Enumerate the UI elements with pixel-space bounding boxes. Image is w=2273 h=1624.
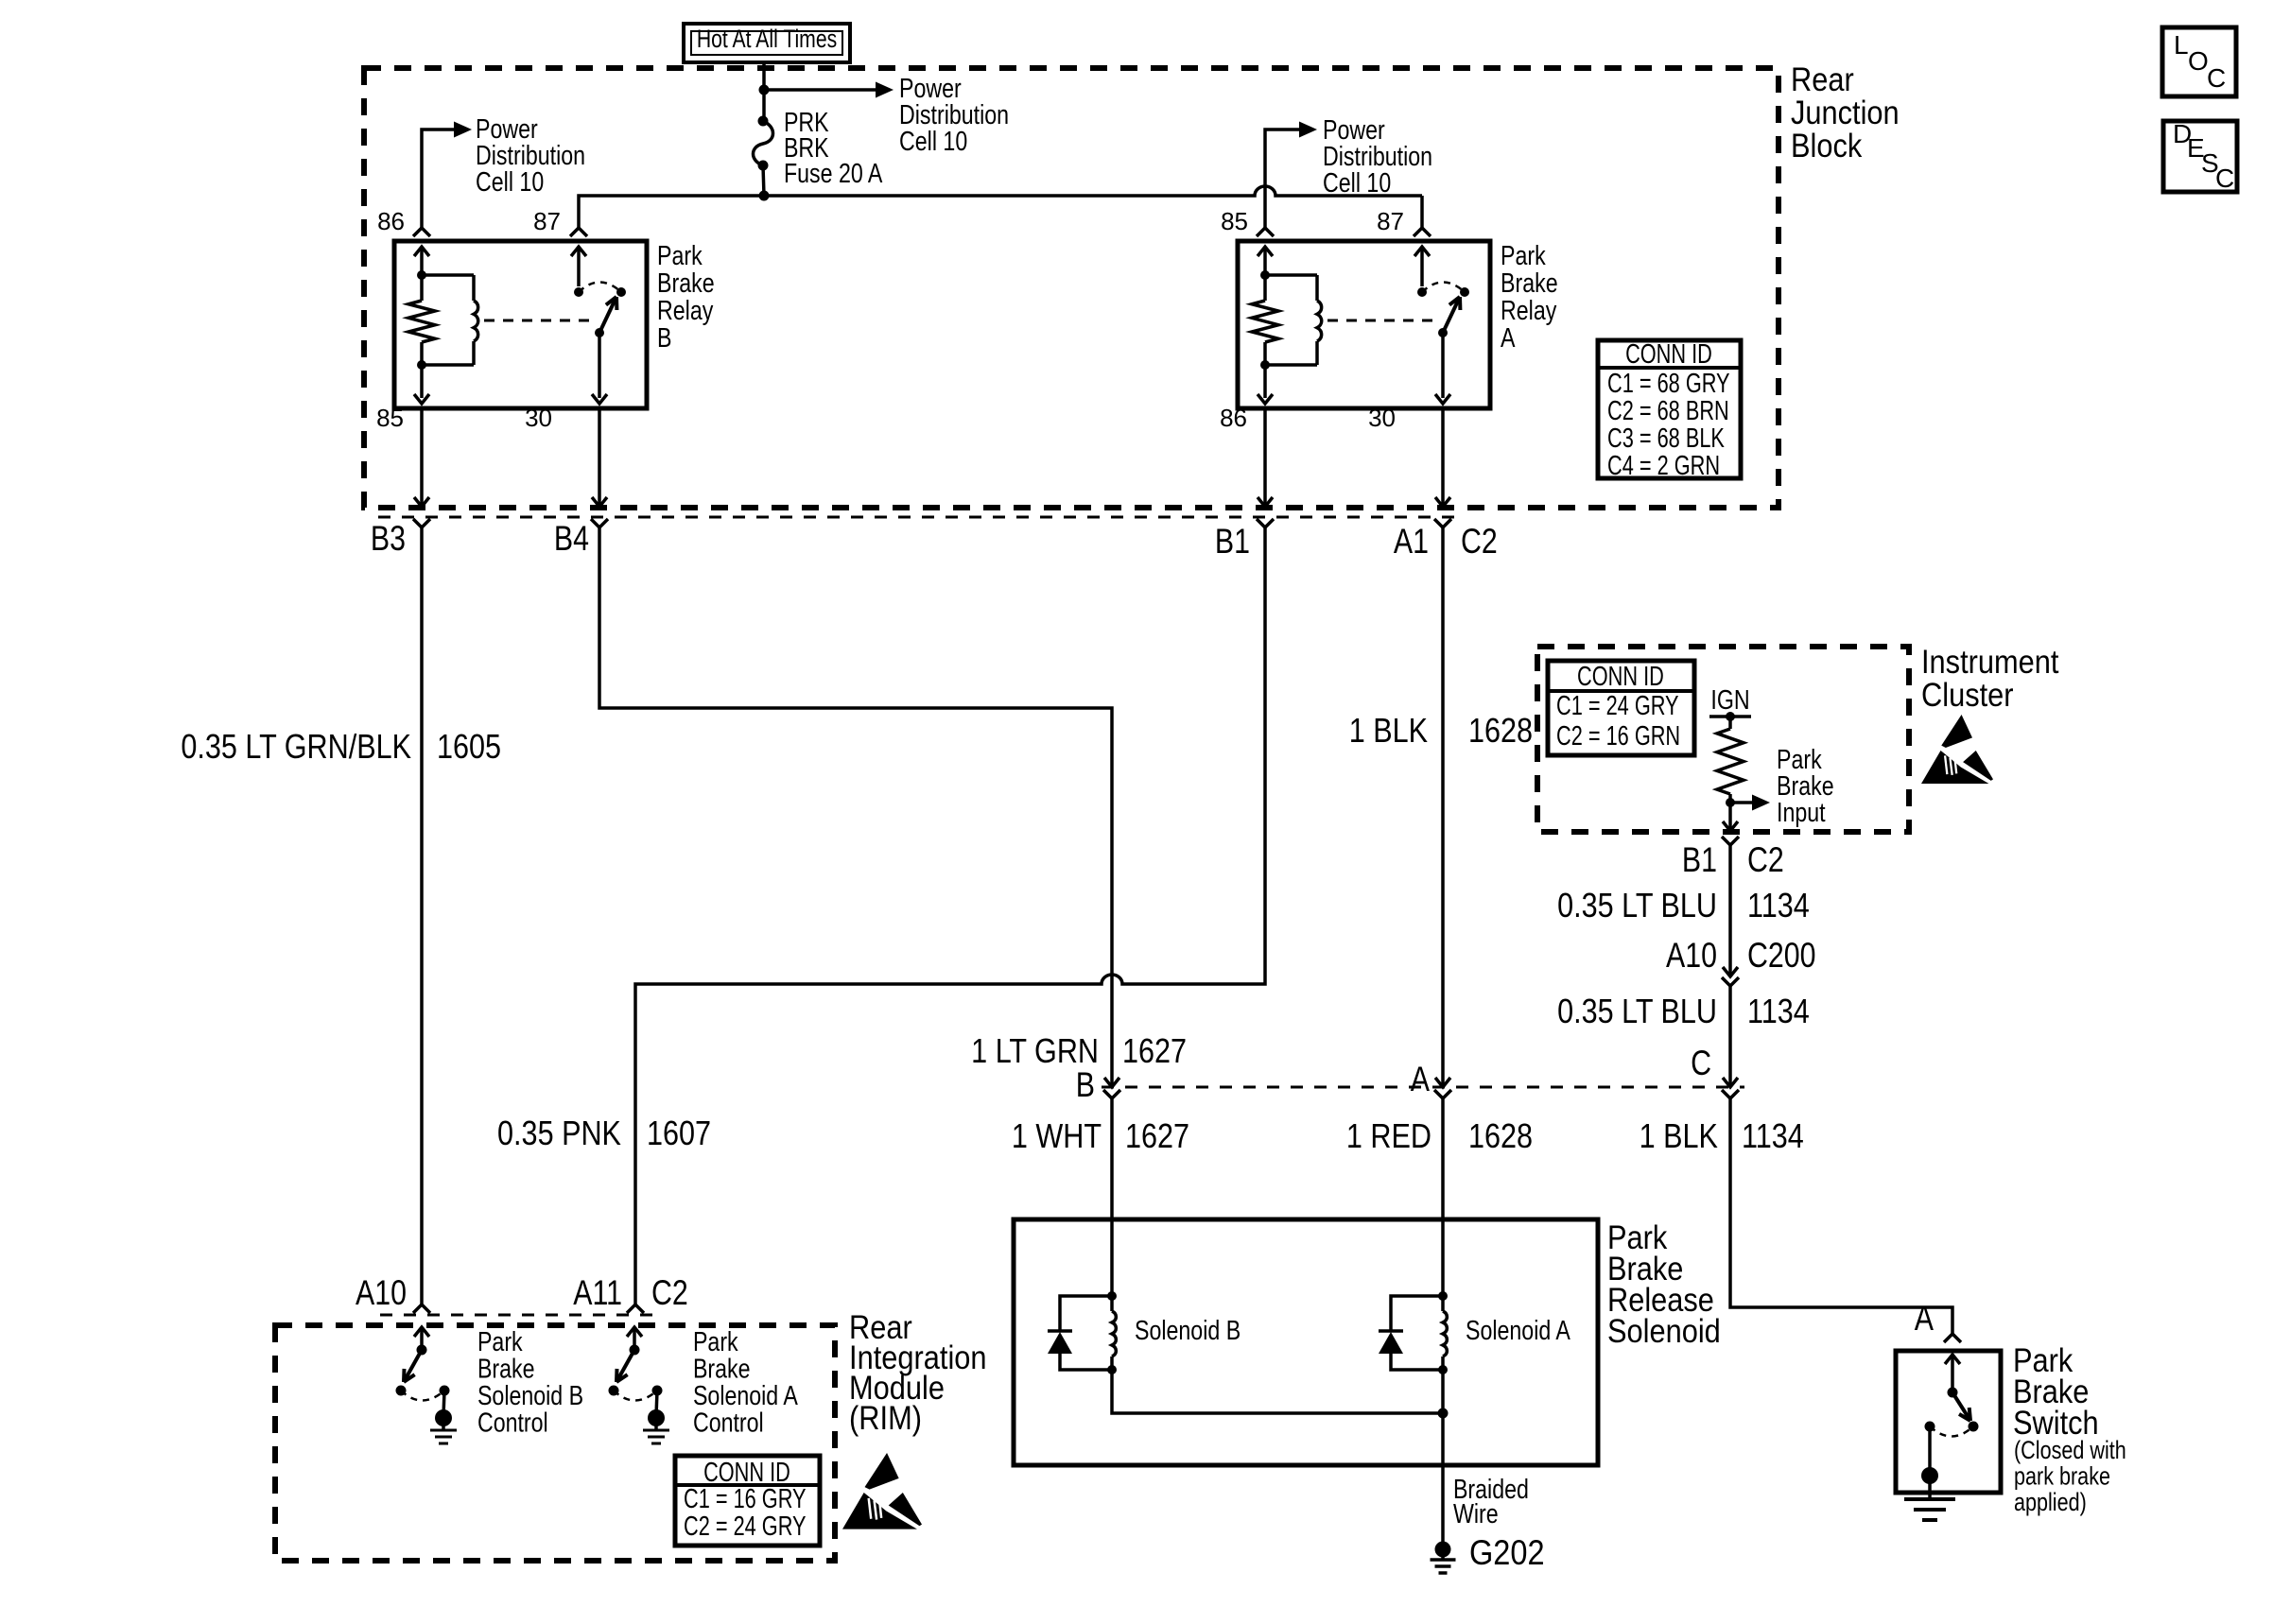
RIM Park Brake Solenoid A Control switch ground contact [652, 1386, 663, 1396]
relay B pin 87 connector chevron [570, 228, 587, 236]
svg-text:Input: Input [1777, 796, 1826, 827]
connector A11 chevron [627, 1304, 644, 1313]
junction block connector dashed line [378, 516, 1461, 519]
svg-text:C: C [2215, 164, 2234, 193]
relay B coil [422, 273, 474, 277]
diode across solenoid A [1391, 1296, 1443, 1331]
svg-text:1134: 1134 [1747, 993, 1810, 1031]
relay B pin 86 wire to Power Distribution arrow [422, 130, 454, 228]
solenoid A bottom node [1438, 1365, 1448, 1374]
svg-text:86: 86 [1220, 404, 1247, 432]
cluster connector chevron B1/C2 [1722, 837, 1739, 845]
wire 1607 (B1 to RIM A11) with hop over wire 1627 [635, 527, 1265, 1304]
fuse PRK BRK Fuse 20 A [762, 90, 766, 121]
relay A switch rest-position dashed arc [1422, 283, 1465, 293]
relay B switch rest-position dashed arc [579, 283, 621, 293]
relay A pin 87 connector chevron [1414, 228, 1431, 236]
solenoid B bottom node [1107, 1365, 1117, 1374]
arrow to Park Brake Input [1730, 801, 1752, 804]
svg-text:Cell 10: Cell 10 [476, 165, 544, 197]
relay A wire pin 86 to junction block edge [1263, 408, 1267, 508]
svg-text:park brake: park brake [2014, 1462, 2110, 1491]
svg-text:CONN ID: CONN ID [1625, 339, 1712, 370]
svg-text:Control: Control [477, 1407, 548, 1438]
wire 1628 (A1 to solenoid connector A) [1441, 527, 1445, 1087]
junction node at top of fuse feed [759, 85, 770, 95]
svg-text:Wire: Wire [1453, 1497, 1499, 1529]
connector B4 chevron [591, 519, 608, 527]
svg-text:Fuse 20 A: Fuse 20 A [784, 157, 883, 188]
svg-text:A: A [1915, 1299, 1935, 1339]
svg-text:0.35 LT BLU: 0.35 LT BLU [1557, 888, 1717, 925]
wire 1134 cluster to C200 [1728, 845, 1732, 976]
svg-text:B3: B3 [371, 519, 406, 559]
svg-text:86: 86 [377, 207, 405, 235]
relay B coil bottom node [417, 360, 426, 370]
svg-text:C2 = 16 GRN: C2 = 16 GRN [1556, 721, 1680, 752]
connector C200 chevron [1722, 977, 1739, 986]
svg-text:(RIM): (RIM) [849, 1399, 922, 1436]
RIM Park Brake Solenoid B Control switch arm [404, 1350, 422, 1382]
switch closed-position dashed arc [1930, 1426, 1973, 1437]
svg-text:1607: 1607 [647, 1115, 711, 1153]
svg-text:Switch: Switch [2013, 1404, 2099, 1441]
switch arm [1952, 1392, 1970, 1421]
relay B switch feed arrow from pin 87 [577, 248, 581, 286]
connector A10 chevron [413, 1304, 430, 1313]
svg-text:0.35 LT BLU: 0.35 LT BLU [1557, 993, 1717, 1031]
CONN ID table for Rear Junction Block [1598, 340, 1741, 478]
svg-text:1134: 1134 [1742, 1118, 1804, 1156]
solenoid A feed wire [1441, 1221, 1445, 1296]
solenoid B top node [1107, 1291, 1117, 1301]
svg-text:Block: Block [1791, 127, 1863, 164]
svg-text:1627: 1627 [1125, 1118, 1189, 1156]
RIM Park Brake Solenoid A Control switch closed-position dashed arc [614, 1391, 657, 1401]
LOC reference box [2162, 27, 2236, 96]
braided ground wire to G202 [1441, 1370, 1445, 1542]
svg-text:Solenoid B: Solenoid B [1135, 1314, 1241, 1345]
relay A coil exit arrow to pin 86 [1263, 365, 1267, 398]
wire connector A to Solenoid A [1441, 1098, 1445, 1221]
fused feed wire node [759, 191, 770, 201]
CONN ID table for RIM [675, 1456, 820, 1546]
svg-text:1 WHT: 1 WHT [1012, 1118, 1102, 1156]
relay B pin 86 connector chevron [413, 228, 430, 236]
park brake switch ground [1921, 1467, 1938, 1484]
svg-text:B4: B4 [554, 519, 589, 559]
power feed label box: Hot At All Times [684, 24, 850, 62]
svg-text:C1 = 68 GRY: C1 = 68 GRY [1607, 369, 1730, 399]
relay A coil [1265, 273, 1317, 277]
svg-text:1 RED: 1 RED [1346, 1118, 1431, 1156]
svg-text:B1: B1 [1682, 840, 1717, 880]
park brake input tap node [1726, 798, 1735, 807]
relay B wire pin 85 to junction block edge [420, 408, 424, 508]
relay A switch fixed contact [1460, 287, 1469, 297]
wire connector C to Park Brake Switch A [1730, 1098, 1952, 1334]
connector B3 chevron [413, 519, 430, 527]
feed wire right segment with hop over relay A pin 85 wire [764, 186, 1422, 196]
diode across solenoid B [1060, 1296, 1112, 1331]
svg-text:C: C [1691, 1044, 1711, 1083]
RIM Park Brake Solenoid B Control switch open contact [396, 1386, 407, 1396]
relay B box [394, 241, 647, 408]
svg-text:85: 85 [1221, 207, 1248, 235]
ESD sensitive symbol (RIM) [842, 1453, 922, 1529]
ground G202 [1435, 1542, 1451, 1558]
switch open contact [1969, 1422, 1979, 1432]
svg-text:A10: A10 [356, 1273, 407, 1313]
RIM Park Brake Solenoid A Control driver entry arrow [633, 1328, 636, 1345]
relay A switch movable arm [1443, 297, 1460, 333]
svg-text:O: O [2188, 46, 2209, 76]
svg-text:Solenoid A: Solenoid A [1466, 1314, 1570, 1345]
Instrument Cluster dashed enclosure [1537, 647, 1909, 832]
relay B switch contact (pin 87 side) [574, 287, 583, 297]
svg-text:C2 = 24 GRY: C2 = 24 GRY [684, 1512, 807, 1542]
chevron below connector B [1103, 1090, 1120, 1098]
relay A kickback resistor [1252, 301, 1278, 342]
relay A coil top node [1260, 270, 1270, 280]
svg-text:0.35 LT GRN/BLK: 0.35 LT GRN/BLK [181, 729, 411, 767]
relay A switch contact (pin 87 side) [1417, 287, 1427, 297]
solenoid A top node [1438, 1291, 1448, 1301]
relay B wire pin 30 to junction block edge [598, 408, 601, 508]
svg-text:Control: Control [693, 1407, 764, 1438]
svg-text:C200: C200 [1747, 936, 1816, 976]
relay A wire pin 30 to junction block edge [1441, 408, 1445, 508]
svg-text:B1: B1 [1215, 522, 1250, 561]
solenoid harness connector dashed line [1102, 1086, 1744, 1089]
relay B switch movable arm [599, 297, 616, 333]
svg-text:87: 87 [1377, 207, 1404, 235]
Rear Junction Block dashed enclosure [364, 68, 1778, 508]
RIM Park Brake Solenoid A Control switch open contact [609, 1386, 619, 1396]
svg-text:G202: G202 [1469, 1533, 1545, 1572]
svg-text:30: 30 [1368, 404, 1396, 432]
svg-text:87: 87 [533, 207, 561, 235]
ESD sensitive symbol (instrument cluster) [1921, 715, 1993, 784]
relay B coil-side entry arrow [420, 248, 424, 275]
chevron below connector C [1722, 1090, 1739, 1098]
solenoid common return wire [1112, 1370, 1443, 1413]
relay A control dashed link [1327, 320, 1436, 322]
svg-text:1605: 1605 [437, 729, 501, 767]
relay B switch fixed contact [616, 287, 626, 297]
svg-text:C2 = 68 BRN: C2 = 68 BRN [1607, 396, 1729, 426]
relay B control dashed link [484, 320, 593, 322]
relay B switch exit arrow to pin 30 [598, 333, 601, 398]
svg-text:IGN: IGN [1710, 683, 1749, 715]
RIM Park Brake Solenoid B Control switch closed-position dashed arc [401, 1391, 444, 1401]
relay A switch exit arrow to pin 30 [1441, 333, 1445, 398]
wire 1134 C200 to solenoid connector C [1728, 986, 1732, 1087]
wire connector B to Solenoid B [1110, 1098, 1114, 1221]
RIM Park Brake Solenoid A Control switch pivot node [630, 1345, 640, 1356]
svg-text:(Closed with: (Closed with [2014, 1437, 2126, 1465]
svg-text:B: B [1076, 1065, 1095, 1105]
solenoid return junction node [1438, 1408, 1449, 1419]
svg-text:1134: 1134 [1747, 888, 1810, 925]
svg-text:Solenoid: Solenoid [1607, 1312, 1721, 1349]
svg-text:Cell 10: Cell 10 [1323, 166, 1391, 198]
relay B coil top node [417, 270, 426, 280]
svg-text:B: B [657, 321, 671, 353]
svg-text:A11: A11 [573, 1273, 622, 1313]
feed wire drop to relay A pin 87 [1420, 196, 1424, 228]
svg-text:1628: 1628 [1468, 1118, 1533, 1156]
svg-text:C2: C2 [1461, 522, 1498, 561]
relay B kickback resistor [408, 301, 435, 342]
RIM connector dashed line [380, 1314, 657, 1317]
IGN feed bar and node [1709, 715, 1751, 718]
wire 1627 upper (B4 to solenoid connector B) [599, 527, 1112, 1087]
RIM Park Brake Solenoid B Control ground [443, 1391, 444, 1416]
RIM Park Brake Solenoid A Control switch arm [616, 1350, 634, 1382]
svg-text:C2: C2 [651, 1273, 688, 1313]
arrow to Power Distribution Cell 10 (top right) [764, 88, 876, 92]
svg-text:L: L [2174, 30, 2189, 60]
svg-text:applied): applied) [2014, 1489, 2087, 1517]
svg-text:CONN ID: CONN ID [1577, 662, 1664, 692]
feed wire left segment to relay B pin 87 [579, 196, 764, 228]
relay A coil-side entry arrow [1263, 248, 1267, 275]
DESC reference box [2163, 121, 2237, 192]
relay A pin 85 wire to Power Distribution arrow [1265, 130, 1299, 228]
Park Brake Switch box [1896, 1351, 2001, 1493]
relay B coil exit arrow to pin 85 [420, 365, 424, 398]
svg-text:C1 = 24 GRY: C1 = 24 GRY [1556, 691, 1679, 721]
relay A box [1238, 241, 1490, 408]
switch ground contact [1925, 1422, 1935, 1432]
Park Brake Release Solenoid box [1014, 1219, 1598, 1465]
svg-text:A: A [1501, 321, 1516, 353]
relay A coil bottom node [1260, 360, 1270, 370]
switch feed arrow [1951, 1356, 1954, 1388]
wire from Hot At All Times into Rear Junction Block [762, 62, 766, 90]
Rear Integration Module dashed enclosure [275, 1325, 835, 1561]
solenoid B coil [1110, 1296, 1114, 1311]
switch pivot node [1948, 1388, 1958, 1398]
solenoid B feed wire [1110, 1221, 1114, 1296]
svg-text:0.35 PNK: 0.35 PNK [497, 1115, 621, 1153]
switch ground wire [1928, 1426, 1932, 1473]
wire 1605 (B3 to RIM A10) [420, 527, 424, 1304]
svg-text:C1 = 16 GRY: C1 = 16 GRY [684, 1484, 807, 1514]
svg-text:Cluster: Cluster [1921, 676, 2014, 713]
svg-text:1 BLK: 1 BLK [1640, 1118, 1718, 1156]
relay A switch feed arrow from pin 87 [1420, 248, 1424, 286]
svg-text:C2: C2 [1747, 840, 1784, 880]
RIM Park Brake Solenoid A Control ground [656, 1391, 657, 1416]
CONN ID table for Instrument Cluster [1548, 661, 1694, 755]
svg-text:CONN ID: CONN ID [703, 1458, 790, 1488]
svg-text:A10: A10 [1666, 936, 1717, 976]
relay A pin 85 connector chevron [1257, 228, 1274, 236]
park brake input pull-up resistor [1728, 717, 1732, 729]
svg-text:A1: A1 [1394, 522, 1429, 561]
cluster internal wire to connector, exit arrow [1728, 803, 1732, 831]
RIM Park Brake Solenoid B Control switch ground contact [440, 1386, 450, 1396]
svg-text:Hot At All Times: Hot At All Times [697, 26, 837, 54]
svg-text:C4 = 2 GRN: C4 = 2 GRN [1607, 451, 1720, 481]
svg-text:Cell 10: Cell 10 [899, 125, 967, 156]
svg-text:Junction: Junction [1791, 94, 1900, 130]
svg-text:C3 = 68 BLK: C3 = 68 BLK [1607, 423, 1725, 454]
connector B1 chevron [1257, 519, 1274, 527]
RIM Park Brake Solenoid B Control driver entry arrow [420, 1328, 424, 1345]
svg-text:A: A [1411, 1060, 1431, 1099]
svg-text:85: 85 [376, 404, 404, 432]
connector A1 chevron [1434, 519, 1451, 527]
relay B switch pivot node [595, 328, 604, 337]
svg-text:1628: 1628 [1468, 713, 1533, 751]
svg-text:30: 30 [525, 404, 552, 432]
chevron below connector A [1434, 1090, 1451, 1098]
svg-text:1627: 1627 [1122, 1033, 1187, 1071]
RIM Park Brake Solenoid B Control switch pivot node [417, 1345, 427, 1356]
svg-text:Rear: Rear [1791, 60, 1854, 97]
svg-text:1 BLK: 1 BLK [1349, 713, 1428, 751]
svg-text:C: C [2207, 63, 2226, 93]
relay A switch pivot node [1438, 328, 1448, 337]
solenoid A coil [1441, 1296, 1445, 1311]
svg-text:Instrument: Instrument [1921, 643, 2058, 680]
